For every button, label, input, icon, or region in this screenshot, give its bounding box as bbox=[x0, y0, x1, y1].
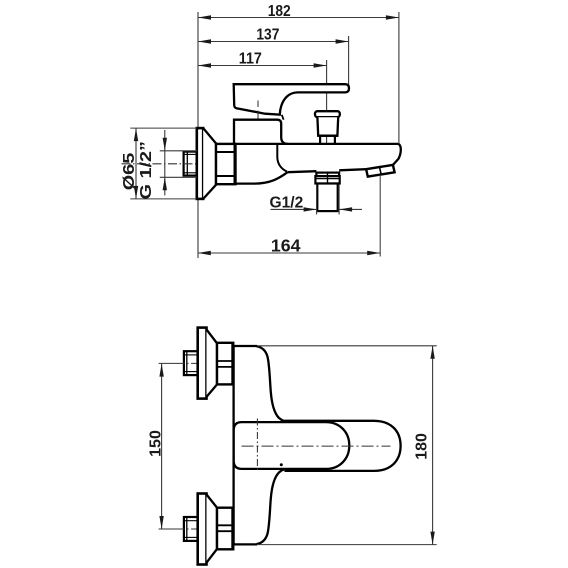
lever handle bbox=[234, 84, 349, 114]
centre dot mark bbox=[280, 463, 283, 466]
lower inlet nipple bbox=[184, 517, 198, 541]
lower inlet axis (dash-dot) bbox=[159, 528, 203, 530]
lower boss bottom edge bbox=[234, 543, 257, 545]
diverter knob cap bbox=[315, 111, 340, 117]
svg-text:G1/2: G1/2 bbox=[270, 194, 304, 211]
lower flange disc bbox=[198, 494, 207, 565]
dimension 137 bbox=[198, 39, 349, 43]
svg-text:Ø65: Ø65 bbox=[121, 153, 138, 191]
extension line for 117 (diverter axis) bbox=[326, 60, 328, 143]
cartridge axis tick (dash-dot) bbox=[257, 101, 259, 108]
cap sliver under handle bbox=[282, 115, 284, 120]
spout nose (right end) bbox=[393, 144, 401, 165]
escutcheon flange disc bbox=[197, 128, 203, 199]
svg-text:137: 137 bbox=[256, 27, 279, 44]
upper inlet nipple bbox=[184, 351, 198, 375]
diverter knob body bbox=[317, 117, 338, 136]
handle (plan) bbox=[234, 422, 350, 469]
dimension G1/2 (shower outlet) bbox=[316, 185, 318, 215]
wall plane line bbox=[197, 12, 199, 258]
svg-text:150: 150 bbox=[148, 430, 165, 457]
upper S-curve (body flare) bbox=[257, 346, 286, 421]
svg-text:117: 117 bbox=[239, 50, 262, 67]
lower hex nut bbox=[217, 508, 233, 550]
shower outlet nut bbox=[315, 176, 339, 183]
upper boss top edge bbox=[234, 345, 257, 347]
shower outlet collar bbox=[316, 173, 339, 177]
lower cone bbox=[207, 495, 218, 563]
body / spout top line bbox=[235, 143, 398, 145]
body left face (plan) bbox=[232, 346, 234, 545]
lower S-curve (body flare) bbox=[257, 469, 286, 544]
cartridge axis tick (plan) bbox=[256, 419, 258, 473]
dimension G 1/2" (thread) bbox=[160, 150, 197, 152]
barrel-to-column inner edge bbox=[277, 144, 287, 172]
spout barrel (plan) bbox=[285, 421, 401, 471]
plan centre line (dash-dot) bbox=[242, 445, 391, 447]
upper cone bbox=[207, 330, 218, 397]
dimension 164 bbox=[379, 176, 381, 257]
svg-text:182: 182 bbox=[268, 3, 291, 20]
shower outlet pipe bbox=[317, 184, 337, 212]
extension line for 137 (handle end) bbox=[348, 36, 350, 85]
valve body column with under-fillet bbox=[235, 144, 288, 184]
wall nipple thread (G 1/2 inlet pipe) bbox=[184, 152, 197, 176]
escutcheon cone bbox=[203, 128, 216, 199]
dimension 180 bbox=[257, 345, 437, 347]
inlet centre line (dash-dot) bbox=[122, 163, 197, 165]
dimension 182 bbox=[198, 15, 399, 19]
dimension 150 bbox=[159, 364, 163, 529]
upper flange disc bbox=[198, 328, 207, 399]
dimension 117 bbox=[198, 63, 327, 67]
extension line for 182 (spout tip) bbox=[398, 12, 400, 144]
diverter knob neck bbox=[319, 136, 321, 144]
hex nut (wall union) bbox=[216, 144, 236, 184]
svg-text:180: 180 bbox=[413, 433, 430, 460]
spout underside bbox=[288, 171, 317, 172]
svg-text:G 1/2”: G 1/2” bbox=[138, 141, 155, 199]
svg-text:164: 164 bbox=[271, 235, 301, 255]
upper inlet axis (dash-dot) bbox=[159, 362, 203, 364]
dimension Ø65 (flange) bbox=[130, 127, 196, 129]
cartridge cover bbox=[234, 120, 288, 144]
upper hex nut bbox=[217, 343, 233, 385]
aerator outlet bbox=[366, 165, 395, 177]
